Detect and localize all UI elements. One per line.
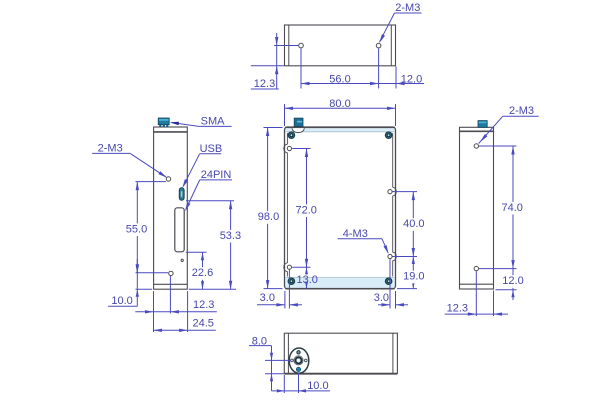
svg-text:4-M3: 4-M3 xyxy=(343,228,368,240)
svg-text:19.0: 19.0 xyxy=(403,271,424,283)
svg-text:13.0: 13.0 xyxy=(296,274,317,286)
svg-text:2-M3: 2-M3 xyxy=(395,2,420,14)
svg-text:SMA: SMA xyxy=(201,116,226,128)
svg-text:10.0: 10.0 xyxy=(111,295,132,307)
svg-text:72.0: 72.0 xyxy=(295,204,316,216)
svg-text:10.0: 10.0 xyxy=(307,380,328,392)
svg-text:24.5: 24.5 xyxy=(192,318,213,330)
svg-text:53.3: 53.3 xyxy=(220,230,241,242)
svg-text:12.0: 12.0 xyxy=(502,275,523,287)
svg-text:12.3: 12.3 xyxy=(254,78,275,90)
svg-text:2-M3: 2-M3 xyxy=(509,105,534,117)
svg-text:55.0: 55.0 xyxy=(126,223,147,235)
svg-text:98.0: 98.0 xyxy=(258,211,279,223)
svg-text:56.0: 56.0 xyxy=(329,73,350,85)
svg-text:12.0: 12.0 xyxy=(401,73,422,85)
svg-text:40.0: 40.0 xyxy=(403,218,424,230)
svg-text:12.3: 12.3 xyxy=(193,299,214,311)
svg-text:3.0: 3.0 xyxy=(260,292,275,304)
svg-text:22.6: 22.6 xyxy=(192,267,213,279)
svg-text:2-M3: 2-M3 xyxy=(98,143,123,155)
svg-text:80.0: 80.0 xyxy=(329,98,350,110)
svg-text:12.3: 12.3 xyxy=(447,303,468,315)
svg-text:24PIN: 24PIN xyxy=(201,169,232,181)
svg-text:3.0: 3.0 xyxy=(374,292,389,304)
svg-text:74.0: 74.0 xyxy=(501,202,522,214)
